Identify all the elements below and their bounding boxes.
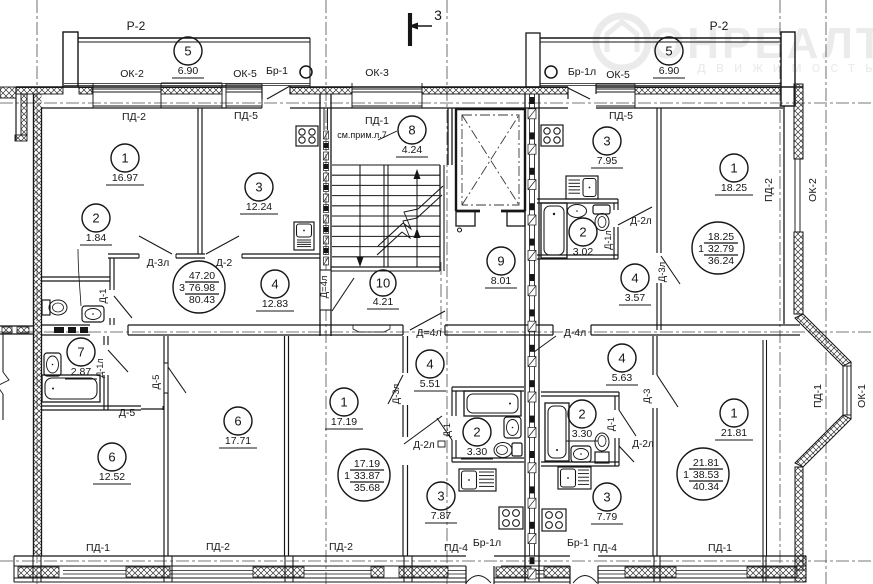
svg-text:36.24: 36.24 bbox=[708, 255, 734, 267]
svg-text:ПД-1: ПД-1 bbox=[708, 542, 732, 554]
stove top-left kitchen bbox=[296, 126, 318, 146]
central wall hatch cells bbox=[528, 97, 536, 579]
svg-text:ОК-5: ОК-5 bbox=[233, 68, 257, 80]
svg-text:3.57: 3.57 bbox=[625, 292, 646, 304]
loggia edge line with break symbol bbox=[0, 334, 9, 420]
stair treads bbox=[332, 165, 440, 267]
elevator pit walls bbox=[456, 211, 525, 232]
toilet bottom-center bbox=[494, 443, 522, 458]
door Br-1l leaf bbox=[568, 84, 596, 99]
svg-text:7.79: 7.79 bbox=[597, 511, 618, 523]
room circle 4 area 3.57 bbox=[619, 264, 651, 305]
svg-text:Д-5: Д-5 bbox=[119, 407, 136, 419]
svg-text:1: 1 bbox=[730, 406, 737, 421]
room circle 2 area 1.84 bbox=[80, 204, 112, 245]
svg-text:21.81: 21.81 bbox=[693, 457, 719, 469]
stair left wall hatch cells bbox=[324, 131, 329, 265]
door swing stair bbox=[332, 278, 354, 311]
svg-text:4: 4 bbox=[426, 357, 433, 372]
svg-text:6.90: 6.90 bbox=[178, 65, 199, 77]
room circle 3 area 7.95 bbox=[591, 127, 623, 168]
svg-text:ОК-2: ОК-2 bbox=[807, 178, 819, 202]
door D-3 swing bottom-right bbox=[657, 375, 678, 407]
svg-text:2: 2 bbox=[578, 407, 585, 422]
svg-text:2.87: 2.87 bbox=[71, 366, 92, 378]
svg-text:Р-2: Р-2 bbox=[710, 19, 729, 33]
svg-text:47.20: 47.20 bbox=[189, 270, 215, 282]
partition hall-room 21.81 bbox=[653, 336, 657, 556]
svg-text:Р-2: Р-2 bbox=[127, 19, 146, 33]
svg-text:5.63: 5.63 bbox=[612, 372, 633, 384]
svg-text:д в и ж и м о с т ь: д в и ж и м о с т ь bbox=[697, 59, 873, 76]
door D-5 leaf room 6-12.52 bbox=[141, 406, 163, 410]
svg-text:2: 2 bbox=[92, 211, 99, 226]
top-left wall stub bbox=[0, 87, 16, 98]
svg-text:2: 2 bbox=[473, 425, 480, 440]
room circle 1 area 16.97 bbox=[106, 144, 144, 185]
svg-text:Д-2л: Д-2л bbox=[630, 216, 652, 227]
svg-text:10: 10 bbox=[376, 276, 390, 291]
svg-text:33.87: 33.87 bbox=[354, 470, 380, 482]
svg-text:17.71: 17.71 bbox=[225, 435, 251, 447]
right wall inner line bbox=[783, 106, 785, 324]
svg-text:3.02: 3.02 bbox=[573, 246, 594, 258]
svg-text:7: 7 bbox=[77, 345, 84, 360]
balcony circle 5 left bbox=[172, 37, 204, 78]
bath bottom-center bbox=[464, 391, 521, 416]
svg-text:9: 9 bbox=[497, 254, 504, 269]
svg-text:ОК-2: ОК-2 bbox=[120, 68, 144, 80]
bath top-right bbox=[541, 203, 567, 258]
svg-text:Д-1: Д-1 bbox=[98, 289, 109, 304]
stair hall right wall bbox=[440, 108, 452, 271]
svg-text:3: 3 bbox=[437, 489, 444, 504]
svg-text:Бр-1: Бр-1 bbox=[567, 537, 589, 549]
svg-text:Д-3л: Д-3л bbox=[657, 262, 668, 282]
svg-text:ПД-5: ПД-5 bbox=[609, 110, 633, 122]
bay inner face lines bbox=[763, 340, 767, 556]
svg-text:6.90: 6.90 bbox=[659, 65, 680, 77]
balcony P-2 right slab bbox=[540, 38, 781, 42]
svg-text:7.87: 7.87 bbox=[431, 510, 452, 522]
label Br-1 with circle bbox=[266, 65, 312, 78]
kitchen sink bottom-center bbox=[459, 469, 496, 491]
door D-1 swing bottom-center bbox=[437, 418, 452, 440]
stair left wall bbox=[320, 94, 331, 336]
axis line E vertical bbox=[825, 0, 827, 584]
stair walk line up arrows bbox=[414, 169, 421, 267]
stair break line bbox=[377, 186, 443, 255]
svg-text:ПД-2: ПД-2 bbox=[206, 541, 230, 553]
bathroom bottom-center walls bbox=[452, 387, 524, 462]
sink top-left wc bbox=[82, 306, 104, 322]
bath bathroom 7 bbox=[42, 375, 100, 402]
svg-text:12.83: 12.83 bbox=[262, 298, 288, 310]
balcony P-2 right column bbox=[781, 32, 795, 106]
balcony P-2 left column bbox=[63, 32, 78, 87]
door D-4l swing left bbox=[410, 311, 445, 330]
svg-text:18.25: 18.25 bbox=[708, 231, 734, 243]
svg-text:2: 2 bbox=[579, 225, 586, 240]
door D-3l swing room 17.19 bbox=[388, 375, 403, 404]
window PD-2 right wall bbox=[794, 159, 803, 232]
bottom wall partition ticks bbox=[33, 556, 766, 582]
svg-text:ПД-2: ПД-2 bbox=[329, 541, 353, 553]
stair center stringer bbox=[384, 165, 388, 267]
door D-1 swing top-left bbox=[114, 296, 132, 318]
svg-text:Бр-1: Бр-1 bbox=[266, 65, 288, 77]
right outer wall mid hatch bbox=[794, 232, 803, 314]
svg-text:Бр-1л: Бр-1л bbox=[473, 537, 501, 549]
svg-text:Д=4л: Д=4л bbox=[319, 276, 330, 299]
room circle 8 stair hall bbox=[396, 116, 428, 157]
svg-text:3: 3 bbox=[603, 490, 610, 505]
svg-text:32.79: 32.79 bbox=[708, 243, 734, 255]
svg-text:Д-3л: Д-3л bbox=[147, 257, 170, 269]
svg-text:5.51: 5.51 bbox=[420, 378, 441, 390]
room circle 2 area 3.30 left bbox=[461, 418, 493, 459]
svg-text:4.21: 4.21 bbox=[373, 296, 394, 308]
stair door opening D-4l bbox=[320, 270, 331, 310]
svg-text:Д-4л: Д-4л bbox=[564, 327, 587, 339]
svg-text:3.30: 3.30 bbox=[572, 428, 593, 440]
axis line 2 horizontal bbox=[0, 331, 873, 333]
window OK-2 top bbox=[93, 83, 161, 108]
top wall outer line bbox=[16, 86, 803, 88]
toilet bottom-right bbox=[595, 433, 609, 463]
room circle 1 area 21.81 bbox=[715, 399, 753, 440]
watermark logo bbox=[596, 16, 648, 68]
svg-text:17.19: 17.19 bbox=[354, 458, 380, 470]
top wall inner line bbox=[42, 107, 783, 109]
svg-text:Д=4л: Д=4л bbox=[416, 327, 441, 339]
svg-text:1: 1 bbox=[344, 470, 350, 482]
svg-text:1.84: 1.84 bbox=[86, 232, 107, 244]
partition rooms 1-3 top-left bbox=[198, 108, 202, 254]
svg-text:12.52: 12.52 bbox=[99, 471, 125, 483]
label Br-1l with circle bbox=[545, 66, 596, 78]
balcony left inner slab edge bbox=[64, 84, 310, 86]
svg-text:ПД-4: ПД-4 bbox=[593, 542, 617, 554]
svg-text:Д-1: Д-1 bbox=[606, 417, 616, 431]
door Br-1 leaf bbox=[262, 86, 290, 99]
partition rooms 6-6 bottom-left bbox=[164, 336, 168, 556]
bathroom 7 walls bbox=[42, 336, 141, 410]
svg-text:35.68: 35.68 bbox=[354, 482, 380, 494]
middle wall section 2 bbox=[128, 325, 403, 335]
svg-text:38.53: 38.53 bbox=[693, 469, 719, 481]
svg-text:1: 1 bbox=[121, 151, 128, 166]
window sill pier box bbox=[161, 83, 222, 108]
kitchen sink top-left bbox=[294, 222, 314, 250]
room circle 4 area 5.51 bbox=[414, 350, 446, 391]
window OK-3 top bbox=[352, 83, 422, 108]
apartment summary circle 1 bottom-right bbox=[677, 448, 729, 500]
middle wall left section bbox=[41, 325, 90, 335]
svg-text:3: 3 bbox=[603, 134, 610, 149]
room circle 2 area 3.30 right bbox=[566, 400, 598, 441]
central wall bbox=[525, 94, 539, 582]
svg-text:8: 8 bbox=[408, 123, 415, 138]
svg-text:1: 1 bbox=[698, 243, 704, 255]
room circle 6 area 17.71 bbox=[219, 407, 257, 448]
svg-text:4: 4 bbox=[631, 271, 638, 286]
right outer wall upper hatch bbox=[794, 84, 803, 159]
svg-text:5: 5 bbox=[184, 44, 191, 59]
stair bottom wall bbox=[331, 267, 440, 271]
bay window bottom angled wall bbox=[795, 415, 851, 467]
door D-1l swing bathroom 7 bbox=[108, 350, 128, 372]
svg-text:80.43: 80.43 bbox=[189, 294, 215, 306]
svg-text:18.25: 18.25 bbox=[721, 182, 747, 194]
svg-text:8.01: 8.01 bbox=[491, 275, 512, 287]
wc wall top-left bbox=[42, 277, 110, 281]
bay window front wall with OK-1 bbox=[843, 362, 851, 419]
toilet top-left wc bbox=[42, 300, 67, 315]
svg-text:4.24: 4.24 bbox=[402, 144, 423, 156]
sink oval top-right bbox=[568, 205, 587, 218]
svg-text:1: 1 bbox=[730, 161, 737, 176]
axis line D vertical bbox=[779, 0, 781, 584]
bay window top angled wall bbox=[795, 314, 851, 366]
svg-text:1: 1 bbox=[340, 395, 347, 410]
axis line C vertical bbox=[446, 0, 448, 584]
svg-text:ОК-3: ОК-3 bbox=[365, 67, 389, 79]
door D-4l swing right bbox=[534, 336, 556, 352]
axis line 1 horizontal bbox=[0, 102, 873, 104]
bathroom top-right walls bbox=[537, 199, 618, 259]
svg-text:Д-1л: Д-1л bbox=[603, 230, 613, 249]
partition horizontal hallway top-left bbox=[108, 254, 320, 258]
svg-text:ПД-1: ПД-1 bbox=[812, 384, 824, 408]
svg-text:3: 3 bbox=[179, 282, 185, 294]
bottom wall inner line bbox=[14, 555, 806, 557]
leader line to circle 8 bbox=[378, 131, 397, 140]
svg-text:3: 3 bbox=[434, 7, 442, 23]
svg-text:ОК-1: ОК-1 bbox=[856, 384, 868, 408]
door D-2 swing bottom-right bbox=[619, 446, 634, 462]
balcony P-2 left slab bbox=[78, 38, 310, 87]
window OK-5 right top bbox=[596, 84, 635, 108]
door D-3l swing bbox=[139, 236, 172, 254]
svg-text:1: 1 bbox=[683, 469, 689, 481]
svg-text:4: 4 bbox=[271, 277, 278, 292]
axis line B vertical bbox=[325, 0, 327, 584]
room circle 9 area 8.01 bbox=[485, 247, 517, 288]
room circle 1 area 18.25 bbox=[715, 154, 753, 195]
left corner wall hatch bbox=[15, 87, 27, 141]
door threshold below stair bbox=[353, 325, 390, 332]
stove bottom-right kitchen bbox=[542, 509, 566, 531]
svg-text:6: 6 bbox=[234, 414, 241, 429]
svg-text:76.98: 76.98 bbox=[189, 282, 215, 294]
svg-text:Бр-1л: Бр-1л bbox=[568, 66, 596, 78]
leader line from 1.84 label bbox=[78, 249, 81, 306]
axis line 3 horizontal bbox=[0, 560, 873, 562]
door D-5 swing room 6-17.71 bbox=[168, 367, 186, 393]
corridor dashed line bbox=[440, 262, 442, 332]
room circle 3 area 7.79 bbox=[591, 483, 623, 524]
stove bottom-center kitchen bbox=[499, 507, 523, 529]
balcony door Br-1l swing arc bottom bbox=[466, 566, 494, 584]
bottom wall hatch piers bbox=[18, 567, 797, 577]
bathroom bottom-right walls bbox=[541, 392, 619, 466]
balcony door Br-1 swing arc bottom bbox=[570, 566, 598, 584]
door D-2 swing bbox=[206, 236, 239, 254]
svg-text:12.24: 12.24 bbox=[246, 201, 272, 213]
bath bottom-right bbox=[545, 403, 569, 461]
svg-text:4: 4 bbox=[618, 351, 625, 366]
kitchen sink top-right bbox=[566, 176, 598, 199]
toilet top-right bbox=[593, 205, 610, 231]
room circle 10 landing bbox=[367, 270, 399, 309]
apartment summary circle 1 top-right bbox=[692, 222, 744, 274]
top wall hatch piers bbox=[16, 88, 781, 95]
middle wall section 4 bbox=[591, 325, 800, 335]
svg-text:ОК-5: ОК-5 bbox=[606, 69, 630, 81]
svg-text:3.30: 3.30 bbox=[467, 446, 488, 458]
svg-text:ПД-2: ПД-2 bbox=[763, 178, 775, 202]
apartment summary circle 1 bottom-left bbox=[338, 449, 390, 501]
svg-text:21.81: 21.81 bbox=[721, 427, 747, 439]
bottom wall window mid lines bbox=[63, 571, 747, 575]
partition vertical corridor top-left bbox=[110, 258, 114, 325]
room circle 7 area 2.87 bbox=[65, 338, 97, 379]
svg-text:Д-2л: Д-2л bbox=[632, 439, 654, 450]
room circle 3 area 7.87 bbox=[425, 482, 457, 523]
svg-text:Д-2л: Д-2л bbox=[413, 440, 435, 451]
svg-text:Д-1: Д-1 bbox=[442, 423, 452, 437]
apartment summary circle 3 bbox=[173, 261, 225, 313]
partition rooms 17.71-17.19 bbox=[285, 336, 289, 556]
left outer wall bbox=[34, 94, 42, 556]
svg-text:ПД-5: ПД-5 bbox=[234, 110, 258, 122]
stove top-right kitchen bbox=[541, 125, 563, 146]
bottom wall window band bbox=[14, 556, 806, 582]
sink bathroom 7 bbox=[44, 353, 61, 376]
kitchen sink bottom-right bbox=[558, 467, 591, 489]
room circle 1 area 17.19 bbox=[325, 388, 363, 429]
svg-text:Д-3: Д-3 bbox=[642, 389, 653, 404]
room circle 3 area 12.24 bbox=[240, 173, 278, 214]
svg-text:Д-5: Д-5 bbox=[151, 375, 162, 390]
room circle 4 area 12.83 bbox=[256, 270, 294, 311]
svg-text:3: 3 bbox=[255, 180, 262, 195]
door D-2l swing kitchen 7.87 bbox=[404, 416, 442, 444]
svg-text:16.97: 16.97 bbox=[112, 172, 138, 184]
svg-text:40.34: 40.34 bbox=[693, 481, 719, 493]
room circle 4 area 5.63 bbox=[606, 344, 638, 385]
svg-text:5: 5 bbox=[665, 44, 672, 59]
door D-2l swing top-right bbox=[618, 207, 652, 225]
partition room1-kitchen top-right bbox=[657, 108, 661, 330]
svg-text:17.19: 17.19 bbox=[331, 416, 357, 428]
balcony right inner slab edge bbox=[540, 84, 781, 86]
middle wall section 3 bbox=[445, 325, 553, 335]
partition room 17.19 - hall 5.51 bbox=[403, 336, 408, 556]
room circle 2 area 3.02 bbox=[567, 218, 599, 259]
axis line A vertical bbox=[36, 0, 38, 584]
middle wall left stub with hatch bbox=[0, 326, 33, 334]
elevator shaft bbox=[456, 109, 525, 211]
sink bottom-right bbox=[571, 446, 591, 462]
svg-text:ПД-2: ПД-2 bbox=[122, 111, 146, 123]
svg-text:ПД-1: ПД-1 bbox=[86, 542, 110, 554]
sink bottom-center bbox=[504, 417, 521, 438]
stair walk line down arrow bbox=[357, 165, 364, 267]
balcony P-2 right post bbox=[526, 33, 540, 87]
svg-text:ПД-1: ПД-1 bbox=[365, 115, 389, 127]
bottom-right corner wall hatch bbox=[795, 556, 806, 582]
svg-text:см.прим.л.7: см.прим.л.7 bbox=[337, 130, 387, 140]
bay window lower wall hatch bbox=[795, 467, 803, 570]
door D-1 swing bottom-right bbox=[619, 410, 636, 436]
svg-text:ПД-4: ПД-4 bbox=[444, 542, 468, 554]
svg-text:Д-2: Д-2 bbox=[216, 257, 233, 269]
door D-3l swing top-right bbox=[661, 256, 680, 284]
svg-text:Д-3л: Д-3л bbox=[391, 384, 402, 404]
balcony circle 5 right bbox=[653, 37, 685, 78]
room circle 6 area 12.52 bbox=[93, 443, 131, 484]
svg-text:7.95: 7.95 bbox=[597, 155, 618, 167]
section marker 3 bbox=[408, 7, 442, 46]
window OK-5 left top bbox=[226, 83, 262, 108]
svg-text:6: 6 bbox=[108, 450, 115, 465]
